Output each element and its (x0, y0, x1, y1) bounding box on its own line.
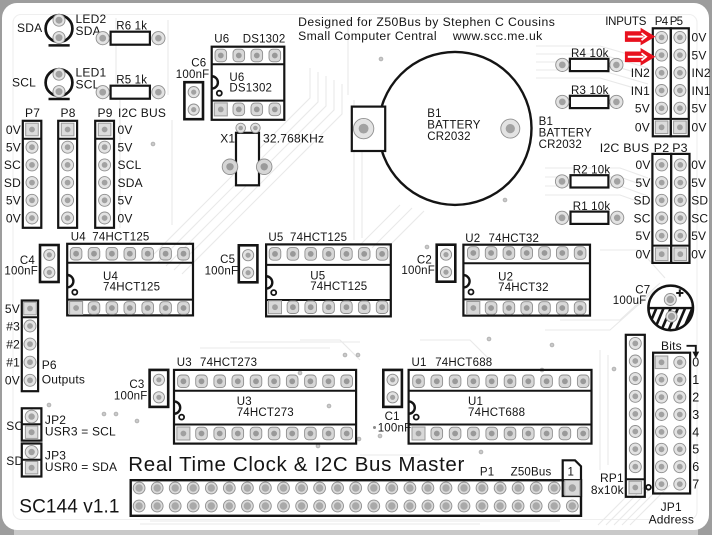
svg-text:BATTERY: BATTERY (427, 120, 481, 132)
battery B1 CR2032 (352, 52, 532, 205)
via dots (47, 57, 616, 454)
jumper arrow marker 1 (625, 28, 656, 46)
svg-text:BATTERY: BATTERY (539, 128, 593, 140)
node SCL label (12, 76, 36, 90)
IC U3 74HCT273 (174, 357, 356, 444)
svg-text:C5: C5 (220, 254, 235, 266)
text 74HCT125 top label U5 (290, 232, 347, 244)
svg-text:SC: SC (634, 211, 651, 225)
connector P6 (22, 301, 38, 392)
svg-text:6: 6 (692, 460, 699, 474)
svg-text:DS1302: DS1302 (229, 83, 272, 95)
svg-text:IN1: IN1 (692, 84, 711, 98)
svg-text:100nF: 100nF (4, 265, 38, 277)
svg-text:2: 2 (692, 391, 699, 405)
svg-text:0V: 0V (6, 211, 21, 225)
svg-text:C6: C6 (191, 57, 206, 69)
capacitor C2 (401, 245, 455, 282)
svg-text:74HCT125: 74HCT125 (92, 231, 149, 243)
text Designed for Z50Bus by Stephen C Cousins (298, 15, 555, 29)
svg-text:5V: 5V (6, 141, 21, 155)
svg-text:USR0 = SDA: USR0 = SDA (45, 460, 117, 474)
svg-text:8x10k: 8x10k (591, 483, 625, 497)
svg-text:P8: P8 (61, 106, 76, 120)
IC U1 74HCT688 (409, 357, 592, 444)
svg-text:74HCT125: 74HCT125 (290, 232, 347, 244)
svg-text:www.scc.me.uk: www.scc.me.uk (452, 29, 543, 43)
node SD label (6, 454, 23, 468)
connector P8 (58, 121, 77, 228)
svg-text:74HCT273: 74HCT273 (237, 407, 294, 419)
svg-text:DS1302: DS1302 (243, 34, 286, 46)
svg-text:U6: U6 (214, 34, 229, 46)
svg-text:5V: 5V (118, 194, 133, 208)
svg-text:5V: 5V (691, 176, 706, 190)
jumper block JP1 (653, 353, 690, 494)
svg-text:100nF: 100nF (205, 266, 239, 278)
svg-text:C3: C3 (129, 379, 144, 391)
svg-text:P4: P4 (655, 16, 669, 28)
svg-text:IN1: IN1 (631, 84, 650, 98)
svg-text:Z50Bus: Z50Bus (511, 467, 552, 479)
svg-text:SD: SD (4, 176, 21, 190)
svg-text:R3 10k: R3 10k (571, 85, 609, 97)
text INPUTS P4 P5 (605, 16, 682, 28)
node SDA label (17, 21, 42, 35)
svg-text:SCL: SCL (12, 76, 36, 90)
svg-text:Outputs: Outputs (42, 373, 85, 387)
text 74HCT273 top label U3 (200, 357, 257, 369)
svg-text:74HCT688: 74HCT688 (468, 407, 525, 419)
text RP1 8x10k (591, 471, 651, 497)
node labels left of P2 (634, 158, 651, 261)
resistor R2 (555, 165, 623, 188)
svg-text:P9: P9 (98, 106, 113, 120)
connector P2 (652, 154, 671, 263)
capacitor C6 (176, 57, 210, 119)
node labels right of P3 (691, 158, 708, 261)
svg-text:SC: SC (6, 419, 23, 433)
svg-text:1: 1 (568, 466, 575, 478)
svg-text:100nF: 100nF (378, 423, 412, 435)
svg-text:SD: SD (634, 194, 651, 208)
svg-text:SD: SD (691, 194, 708, 208)
connector RP1 (626, 335, 645, 497)
svg-text:SCL: SCL (118, 158, 142, 172)
svg-text:INPUTS: INPUTS (605, 16, 647, 28)
svg-text:100nF: 100nF (114, 391, 148, 403)
node bit numbers 0-7 (692, 356, 699, 492)
svg-text:R1 10k: R1 10k (573, 201, 611, 213)
svg-text:SCL: SCL (76, 78, 100, 92)
node labels left of P6 (5, 302, 20, 388)
node SC label (6, 419, 23, 433)
capacitor C3 (114, 370, 168, 407)
svg-text:0V: 0V (635, 121, 650, 135)
svg-text:SC: SC (4, 158, 21, 172)
svg-text:5V: 5V (635, 102, 650, 116)
LED D2 (LED2 SDA) (46, 12, 107, 45)
svg-text:IN2: IN2 (631, 66, 650, 80)
text 74HCT688 top label U1 (435, 357, 492, 369)
connector P9 (95, 121, 114, 228)
svg-text:0V: 0V (6, 123, 21, 137)
svg-text:#1: #1 (6, 356, 20, 370)
jumper arrow marker 2 (625, 48, 656, 66)
resistor R4 (556, 48, 623, 72)
text JP3 USR0 = SDA (45, 449, 117, 475)
svg-text:SDA: SDA (17, 21, 42, 35)
crystal X1 32.768KHz (220, 123, 324, 185)
svg-text:P2: P2 (654, 141, 670, 155)
text JP2 USR3 = SCL (45, 413, 116, 438)
svg-text:U3: U3 (177, 357, 192, 369)
svg-text:X1: X1 (220, 132, 235, 146)
svg-text:#3: #3 (6, 319, 20, 333)
resistor R5 (96, 74, 165, 98)
svg-text:7: 7 (692, 478, 699, 492)
svg-text:CR2032: CR2032 (539, 139, 582, 151)
jumper JP2 (22, 408, 42, 440)
text B1 BATTERY CR2032 (right) (539, 116, 593, 151)
svg-text:0V: 0V (636, 248, 651, 262)
svg-text:SC: SC (691, 211, 708, 225)
text Small Computer Central www.scc.me.uk (298, 29, 543, 43)
svg-text:74HCT273: 74HCT273 (200, 357, 257, 369)
svg-text:5V: 5V (636, 229, 651, 243)
svg-text:SDA: SDA (118, 176, 143, 190)
svg-text:5V: 5V (692, 102, 707, 116)
svg-text:74HCT125: 74HCT125 (310, 281, 367, 293)
IC U4 74HCT125 (67, 231, 193, 315)
svg-text:74HCT125: 74HCT125 (103, 282, 160, 294)
text DS1302 top label (243, 34, 286, 46)
svg-text:U4: U4 (71, 231, 87, 243)
text P6 Outputs (42, 358, 85, 387)
svg-text:74HCT32: 74HCT32 (489, 233, 540, 245)
svg-text:C1: C1 (385, 411, 400, 423)
svg-text:U1: U1 (412, 357, 427, 369)
svg-text:I2C BUS: I2C BUS (600, 141, 650, 155)
connector P7 (23, 121, 42, 228)
svg-text:Real Time Clock & I2C Bus Mast: Real Time Clock & I2C Bus Master (128, 453, 465, 476)
svg-text:P7: P7 (25, 106, 40, 120)
text Real Time Clock & I2C Bus Master (128, 453, 465, 476)
capacitor C7 100uF electrolytic (613, 285, 712, 333)
svg-text:IN2: IN2 (692, 66, 711, 80)
text I2C BUS P2 P3 (600, 141, 688, 155)
node labels left of P7 (4, 123, 21, 226)
svg-text:USR3 = SCL: USR3 = SCL (45, 424, 116, 438)
svg-text:5V: 5V (6, 194, 21, 208)
connector P3 (671, 154, 689, 263)
svg-text:0V: 0V (692, 31, 707, 45)
svg-text:U5: U5 (268, 232, 283, 244)
svg-text:Address: Address (649, 513, 694, 527)
connector P4 (653, 28, 671, 136)
svg-text:Designed for Z50Bus by Stephen: Designed for Z50Bus by Stephen C Cousins (298, 15, 555, 29)
svg-text:Bits: Bits (661, 339, 682, 353)
svg-text:P6: P6 (42, 358, 57, 372)
IC U2 74HCT32 (463, 233, 590, 316)
svg-text:R2 10k: R2 10k (573, 165, 611, 177)
svg-text:0V: 0V (691, 158, 706, 172)
svg-text:P1: P1 (480, 467, 494, 479)
svg-text:B1: B1 (427, 108, 441, 120)
svg-text:CR2032: CR2032 (427, 131, 470, 143)
svg-text:SD: SD (6, 454, 23, 468)
svg-text:SC144 v1.1: SC144 v1.1 (19, 497, 119, 518)
svg-text:U2: U2 (465, 233, 480, 245)
svg-text:5V: 5V (5, 302, 20, 316)
connector P1 Z50Bus (131, 480, 581, 516)
svg-text:I2C BUS: I2C BUS (118, 106, 166, 120)
svg-text:B1: B1 (539, 116, 553, 128)
text JP1 Address (649, 500, 694, 527)
node labels right of P5 (692, 31, 711, 135)
svg-text:74HCT688: 74HCT688 (435, 357, 492, 369)
svg-text:#2: #2 (6, 337, 20, 351)
resistor R3 (556, 85, 623, 109)
capacitor C1 (0, 0, 402, 407)
node labels right of P9 (118, 123, 143, 226)
svg-text:5V: 5V (118, 141, 133, 155)
resistor R6 (96, 20, 165, 45)
svg-text:R5 1k: R5 1k (116, 74, 147, 86)
node labels left of P4 (631, 66, 650, 135)
svg-text:100uF: 100uF (613, 295, 647, 307)
svg-text:0V: 0V (636, 158, 651, 172)
svg-text:0V: 0V (118, 123, 133, 137)
svg-text:5V: 5V (691, 229, 706, 243)
capacitor C5 (205, 245, 258, 282)
svg-text:R4 10k: R4 10k (571, 48, 609, 60)
svg-text:0V: 0V (692, 121, 707, 135)
svg-text:5V: 5V (692, 48, 707, 62)
LED D1 (LED1 SCL) (46, 66, 107, 100)
svg-text:5: 5 (692, 443, 699, 457)
IC U5 74HCT125 (266, 232, 391, 317)
IC U6 DS1302 (212, 34, 285, 120)
svg-text:R6 1k: R6 1k (116, 20, 147, 32)
svg-text:0V: 0V (118, 211, 133, 225)
text SC144 v1.1 (19, 497, 119, 518)
text 74HCT125 top label U4 (92, 231, 149, 243)
resistor R1 (555, 201, 623, 225)
svg-text:74HCT32: 74HCT32 (498, 282, 549, 294)
svg-text:0V: 0V (5, 374, 20, 388)
svg-text:3: 3 (692, 408, 699, 422)
jumper JP3 (22, 444, 42, 477)
text C1 100nF (373, 411, 411, 435)
text 74HCT32 top label U2 (489, 233, 540, 245)
text Bits with arrow (661, 339, 699, 358)
capacitor C4 (4, 245, 58, 282)
svg-text:0: 0 (692, 356, 699, 370)
svg-text:P5: P5 (670, 16, 683, 28)
svg-text:32.768KHz: 32.768KHz (263, 132, 324, 146)
svg-text:1: 1 (692, 373, 699, 387)
svg-text:P3: P3 (672, 141, 688, 155)
svg-text:100nF: 100nF (401, 265, 435, 277)
svg-text:4: 4 (692, 425, 699, 439)
text P1 Z50Bus (480, 467, 552, 479)
svg-text:Small Computer Central: Small Computer Central (298, 29, 437, 43)
svg-text:0V: 0V (691, 248, 706, 262)
pin 1 marker for P1 (563, 460, 581, 496)
connector P5 (671, 28, 689, 136)
svg-text:100nF: 100nF (176, 69, 210, 81)
svg-text:5V: 5V (636, 176, 651, 190)
text P7 P8 P9 I2C BUS (25, 106, 166, 120)
